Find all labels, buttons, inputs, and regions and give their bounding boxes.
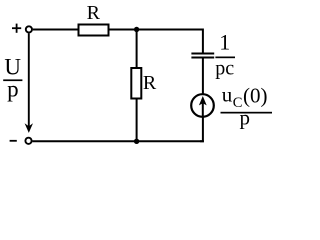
current source arrow (pointing up)	[199, 96, 207, 117]
resistor R1 (series)	[79, 25, 109, 36]
wire top junction down to resistor R2	[136, 30, 138, 69]
wire from + terminal to resistor R1	[33, 29, 78, 31]
current source circle U2	[191, 94, 214, 117]
svg-text:pc: pc	[215, 57, 234, 79]
junction dot bottom	[134, 139, 139, 144]
resistor R2 (shunt)	[131, 68, 141, 99]
svg-text:R: R	[143, 72, 157, 94]
label u_C(0)/p	[221, 82, 273, 129]
wire from R1 to top junction	[110, 29, 137, 31]
terminal circle top-left (+)	[26, 26, 32, 32]
wire capacitor to current source	[202, 59, 204, 96]
wire top junction to top-right corner down to capacitor	[137, 30, 203, 54]
wire current source to bottom-right corner	[200, 117, 203, 142]
wire from R2 to bottom junction	[136, 99, 138, 142]
svg-text:p: p	[7, 76, 19, 101]
svg-text:R: R	[87, 2, 101, 24]
svg-text:(0): (0)	[243, 84, 268, 108]
voltage source arrow U/p (left branch, pointing down)	[25, 33, 33, 132]
svg-text:p: p	[240, 105, 251, 129]
wire bottom	[32, 140, 204, 142]
terminal circle bottom-left (-)	[25, 138, 31, 144]
capacitor C plates	[191, 53, 214, 59]
label 1/pc	[215, 30, 235, 80]
plus sign label	[12, 24, 21, 33]
svg-text:u: u	[222, 82, 233, 106]
label U/p	[3, 55, 22, 102]
minus sign label	[10, 140, 17, 142]
junction dot top	[134, 27, 139, 32]
svg-text:1: 1	[219, 30, 230, 55]
